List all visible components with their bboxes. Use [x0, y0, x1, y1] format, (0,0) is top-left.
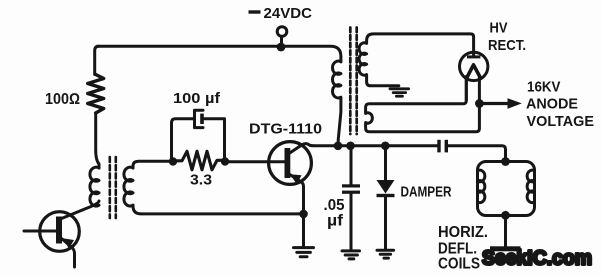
svg-text:100Ω: 100Ω	[45, 91, 80, 108]
wire emitter to ground	[302, 214, 305, 246]
transformer T1 primary winding	[90, 167, 99, 206]
transformer T1 secondary winding	[124, 167, 133, 206]
svg-text:RECT.: RECT.	[488, 37, 526, 54]
svg-text:HORIZ.: HORIZ.	[438, 224, 488, 241]
node Q2 collector / flyback primary	[334, 142, 343, 151]
ground .05 capacitor	[342, 251, 360, 259]
node base resistor right	[221, 157, 229, 165]
tube V1 HV rectifier	[460, 52, 488, 100]
ground damper	[377, 250, 394, 258]
label .05 µf	[324, 197, 345, 230]
wire coils to ground bar	[504, 216, 507, 248]
svg-text:HV: HV	[490, 20, 508, 37]
node coils top	[501, 157, 510, 166]
diode damper	[377, 146, 395, 249]
node base resistor left	[169, 157, 177, 165]
node damper	[381, 142, 390, 151]
label HORIZ DEFL COILS	[438, 224, 488, 273]
capacitor 100µf electrolytic symbol	[195, 110, 204, 127]
capacitor coupling	[437, 140, 448, 153]
transformer T1 core	[110, 157, 116, 218]
node HV output junction	[475, 99, 484, 108]
transistor Q1 driver	[24, 201, 99, 267]
ground T2 HV secondary	[390, 89, 409, 96]
terminal -24VDC	[277, 27, 287, 44]
svg-text:100 µf: 100 µf	[173, 90, 221, 107]
wire left branch	[95, 46, 99, 74]
svg-text:SeekIC.com: SeekIC.com	[482, 247, 592, 270]
wire T1 secondary top to base line	[133, 161, 173, 168]
resistor 100Ω	[88, 75, 104, 114]
svg-text:ANODE: ANODE	[526, 96, 578, 113]
capacitor 100µf bypass loop wires	[172, 119, 225, 162]
transformer T2 HV secondary winding	[359, 34, 474, 86]
ground coils bar	[490, 246, 521, 251]
svg-text:DAMPER: DAMPER	[401, 184, 452, 201]
label -24VDC	[249, 5, 313, 22]
wire collector bus	[334, 144, 438, 147]
transistor Q2 DTG-1110	[269, 142, 334, 211]
transformer T2 core	[350, 28, 356, 135]
capacitor .05µf	[342, 146, 360, 250]
svg-text:µf: µf	[327, 213, 344, 230]
svg-text:24VDC: 24VDC	[264, 5, 313, 22]
svg-text:COILS: COILS	[438, 256, 480, 273]
node supply junction	[277, 43, 286, 52]
node .05 capacitor	[346, 142, 355, 151]
wire resistor to driver transformer	[96, 113, 99, 168]
svg-text:VOLTAGE: VOLTAGE	[527, 113, 595, 130]
horiz deflection coils box	[478, 162, 535, 216]
resistor 3.3	[173, 151, 225, 170]
node Q2 emitter / T1 return	[299, 210, 308, 219]
svg-text:3.3: 3.3	[190, 172, 212, 189]
svg-text:.05: .05	[324, 197, 345, 214]
ground Q2 emitter	[294, 248, 314, 257]
wire T1 secondary bottom to emitter node	[133, 205, 299, 214]
wire coupling cap to coils	[448, 146, 506, 160]
transformer T2 flyback primary	[333, 61, 341, 146]
label 16KV ANODE VOLTAGE	[526, 79, 594, 131]
svg-text:16KV: 16KV	[527, 79, 561, 96]
wire supply bus	[97, 46, 341, 62]
node coils bottom	[501, 211, 510, 220]
wire to Q2 base	[225, 160, 286, 163]
svg-text:DTG-1110: DTG-1110	[249, 121, 322, 138]
arrow 16KV output	[479, 98, 521, 109]
transformer T2 filament winding	[366, 77, 480, 132]
label HV RECT	[488, 20, 526, 54]
